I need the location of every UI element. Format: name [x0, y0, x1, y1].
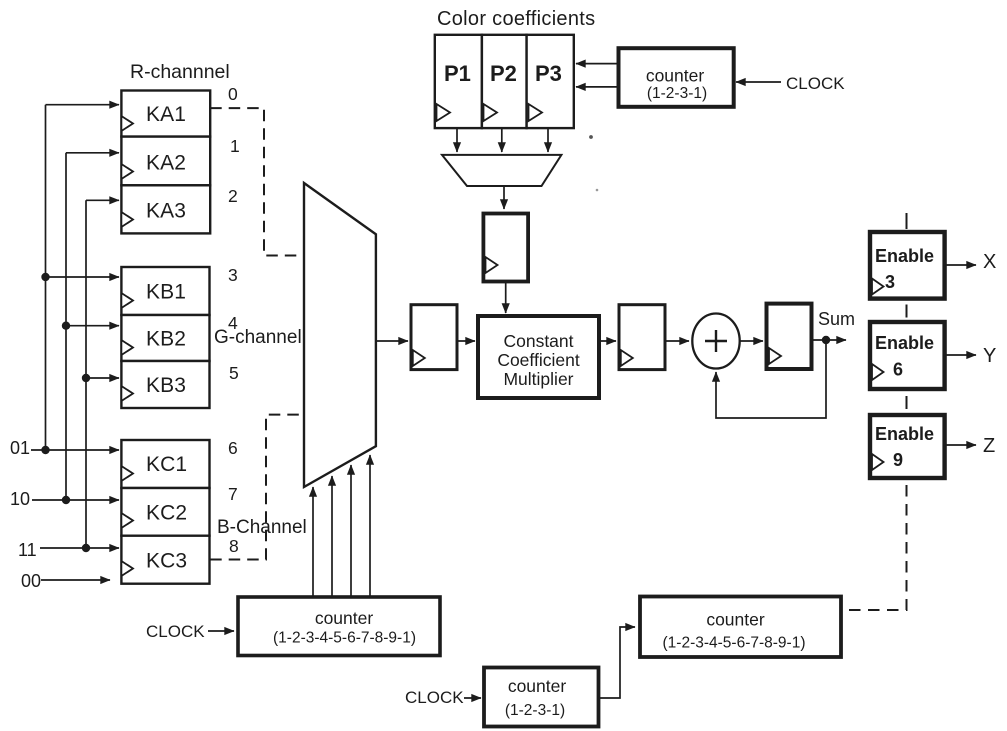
wire counter to P3 lower: [576, 86, 619, 88]
svg-text:KC3: KC3: [146, 550, 187, 573]
wire coeff register to multiplier: [505, 281, 507, 314]
counter U8 (1-2-3-4-5-6-7-8-9-1) bottom right: [640, 597, 841, 658]
svg-text:Constant: Constant: [503, 331, 573, 351]
enable E2 (6): [870, 322, 945, 389]
svg-text:8: 8: [229, 536, 239, 556]
svg-text:7: 7: [228, 484, 238, 504]
wire dashed enable chain: [906, 213, 908, 409]
svg-text:KA3: KA3: [146, 200, 186, 223]
svg-text:B-Channel: B-Channel: [217, 517, 307, 538]
wire P3 down: [547, 128, 549, 152]
svg-text:Enable: Enable: [875, 246, 934, 266]
wire dashed node0 to mux: [210, 108, 302, 255]
junction bus1-KB1: [41, 273, 49, 281]
svg-text:5: 5: [229, 363, 239, 383]
svg-text:KC2: KC2: [146, 502, 187, 525]
wire E3 to Z: [945, 444, 976, 446]
svg-text:CLOCK: CLOCK: [146, 622, 205, 641]
junction bus2-KC2: [62, 496, 70, 504]
svg-text:Multiplier: Multiplier: [503, 369, 573, 389]
wire mux select 2: [331, 476, 333, 596]
wire dashed node8 to mux: [210, 415, 302, 560]
svg-text:6: 6: [228, 438, 238, 458]
svg-text:Z: Z: [983, 435, 995, 457]
wire bus2 to KA2: [66, 152, 119, 154]
wire bus3 vertical: [85, 200, 87, 548]
speck artifact: [589, 135, 593, 139]
register R2: [619, 305, 665, 370]
wire E2 to Y: [945, 354, 976, 356]
svg-text:3: 3: [228, 265, 238, 285]
wire adder to R3: [740, 340, 763, 342]
wire CLOCK to counter: [736, 81, 781, 83]
register P2: [482, 35, 527, 128]
wire R1 to multiplier: [457, 340, 475, 342]
wire 10 to KC2: [32, 499, 119, 501]
register KC1: [121, 440, 209, 488]
counter U7 (1-2-3-1) bottom middle: [484, 668, 599, 727]
wire 00: [41, 579, 110, 581]
register KC2: [121, 488, 209, 536]
mux MUX2: [442, 155, 561, 186]
svg-text:X: X: [983, 251, 996, 273]
svg-text:G-channel: G-channel: [214, 327, 302, 348]
register KB3: [121, 361, 209, 408]
svg-text:(1-2-3-1): (1-2-3-1): [647, 85, 707, 102]
svg-text:Sum: Sum: [818, 309, 855, 329]
wire bus2 vertical: [65, 153, 67, 500]
svg-text:00: 00: [21, 571, 41, 591]
svg-text:CLOCK: CLOCK: [786, 74, 845, 93]
wire 01 to KC1: [31, 449, 119, 451]
register KC3: [121, 536, 209, 584]
multiplier U1 Constant Coefficient Multiplier: [478, 316, 599, 398]
wire counter to P3 upper: [576, 63, 619, 65]
svg-text:KA2: KA2: [146, 152, 186, 175]
wire CLOCK to counter U6: [208, 630, 234, 632]
wire mux2 to coeff register: [503, 186, 505, 209]
svg-text:2: 2: [228, 186, 238, 206]
svg-text:1: 1: [230, 136, 240, 156]
register KB2: [121, 315, 209, 361]
junction bus3-KB3: [82, 374, 90, 382]
svg-text:9: 9: [893, 450, 903, 470]
register P1: [435, 35, 482, 128]
svg-text:KB2: KB2: [146, 328, 186, 351]
wire mux select 1: [312, 487, 314, 596]
svg-text:Coefficient: Coefficient: [497, 350, 580, 370]
wire bus1 to KA1: [46, 104, 120, 106]
counter U6 (1-2-3-4-5-6-7-8-9-1) bottom left: [238, 597, 440, 656]
svg-text:Enable: Enable: [875, 333, 934, 353]
junction Sum: [822, 336, 830, 344]
svg-text:Color coefficients: Color coefficients: [437, 8, 595, 30]
enable E3 (9): [870, 415, 945, 478]
svg-text:KA1: KA1: [146, 103, 186, 126]
wire bus2 to KB2: [66, 325, 119, 327]
register coeff: [483, 214, 528, 282]
svg-text:3: 3: [885, 272, 895, 292]
svg-text:11: 11: [18, 540, 37, 560]
svg-text:KC1: KC1: [146, 453, 187, 476]
junction bus2-KB2: [62, 322, 70, 330]
counter U5 (1-2-3-1) top: [619, 48, 734, 107]
svg-text:Enable: Enable: [875, 424, 934, 444]
wire R3 output: [812, 339, 847, 341]
wire P1 down: [456, 128, 458, 152]
wire bus1 to KB1: [46, 276, 120, 278]
svg-text:(1-2-3-4-5-6-7-8-9-1): (1-2-3-4-5-6-7-8-9-1): [663, 635, 806, 652]
wire P2 down: [501, 128, 503, 152]
svg-text:(1-2-3-1): (1-2-3-1): [505, 702, 565, 719]
register KA1: [121, 91, 210, 137]
wire bus3 to KB3: [86, 377, 119, 379]
register KA2: [121, 137, 210, 186]
junction bus1-KC1: [41, 446, 49, 454]
register KA3: [121, 185, 210, 233]
svg-text:KB1: KB1: [146, 281, 186, 304]
wire counter U7 to counter U8: [599, 627, 635, 698]
svg-text:R-channnel: R-channnel: [130, 61, 230, 83]
svg-text:KB3: KB3: [146, 374, 186, 397]
svg-text:counter: counter: [646, 66, 705, 86]
junction bus3-KC3: [82, 544, 90, 552]
wire mux1 output: [376, 340, 408, 342]
register P3: [527, 35, 574, 128]
svg-text:P2: P2: [490, 61, 517, 86]
svg-text:10: 10: [10, 489, 30, 509]
enable E1 (3): [870, 232, 945, 299]
svg-text:counter: counter: [315, 608, 374, 628]
mux MUX1: [304, 183, 376, 487]
register KB1: [121, 267, 209, 315]
svg-text:counter: counter: [508, 676, 567, 696]
wire bus1 vertical: [45, 105, 47, 450]
svg-text:01: 01: [10, 438, 30, 458]
wire 11 to KC3: [40, 547, 119, 549]
svg-text:P3: P3: [535, 61, 562, 86]
wire mux select 4: [369, 455, 371, 596]
wire feedback to adder: [716, 340, 826, 418]
wire mux select 3: [350, 465, 352, 596]
adder A1: [692, 314, 739, 369]
svg-text:Y: Y: [983, 345, 996, 367]
wire R2 to adder: [665, 340, 689, 342]
wire E1 to X: [945, 264, 976, 266]
svg-text:0: 0: [228, 84, 238, 104]
svg-text:CLOCK: CLOCK: [405, 688, 464, 707]
register R1: [411, 305, 457, 370]
svg-text:6: 6: [893, 360, 903, 380]
register R3: [767, 304, 812, 369]
wire multiplier to R2: [599, 340, 616, 342]
wire CLOCK to counter U7: [464, 697, 481, 699]
svg-text:counter: counter: [706, 610, 765, 630]
svg-text:P1: P1: [444, 61, 471, 86]
svg-text:(1-2-3-4-5-6-7-8-9-1): (1-2-3-4-5-6-7-8-9-1): [273, 630, 416, 647]
wire bus3 to KA3: [86, 199, 119, 201]
